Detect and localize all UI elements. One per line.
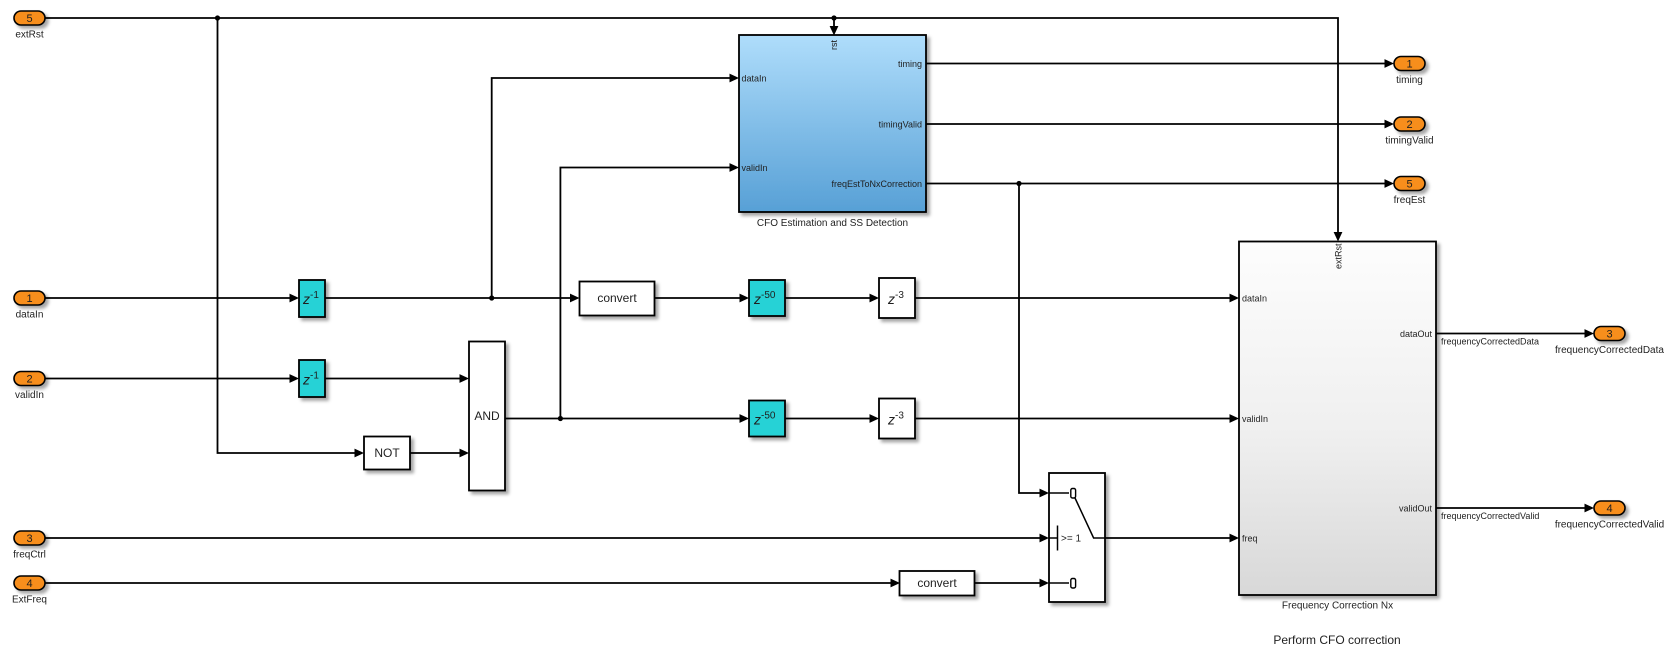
svg-text:4: 4 [1606,503,1612,515]
arrow into port4 [1585,504,1595,513]
svg-text:dataIn: dataIn [742,74,767,84]
arrow into port3 [1585,329,1595,338]
arrow into switch bottom [1040,579,1050,588]
wire ExtFreq to convert2 [45,582,891,584]
svg-text:freqCtrl: freqCtrl [13,550,46,561]
delay z-3 lower [879,399,915,439]
switch threshold stub [1049,537,1058,539]
wire branch up to CFO dataIn [492,78,730,298]
convert block 1 [580,282,655,316]
svg-text:ExtFreq: ExtFreq [12,595,47,606]
node extRst-NOT branch [215,15,220,20]
wire CFO freqEst to port5 out [926,183,1385,185]
svg-text:frequencyCorrectedData: frequencyCorrectedData [1555,345,1664,356]
svg-text:5: 5 [26,13,32,25]
svg-text:convert: convert [597,291,637,305]
svg-text:timingValid: timingValid [1385,136,1433,147]
svg-text:Perform CFO correction: Perform CFO correction [1273,633,1400,647]
switch bottom contact [1071,579,1076,589]
svg-text:2: 2 [1406,119,1412,131]
arrow into out port timing [1385,59,1395,68]
delay z-50 lower [749,401,785,437]
wire convert2 to switch [975,582,1040,584]
arrow into convert1 [570,294,580,303]
switch bottom input stub [1049,582,1069,584]
svg-text:validIn: validIn [15,390,44,401]
svg-text:extRst: extRst [1334,243,1344,269]
outport 3 frequencyCorrectedData [1441,327,1664,357]
arrow into z-50 lower [740,414,750,423]
arrowheads [290,26,1595,587]
svg-text:validIn: validIn [1242,414,1268,424]
svg-text:NOT: NOT [374,446,400,460]
arrow into NOT [355,449,365,458]
arrow into CFO validIn [730,163,740,172]
arrow into out port timingValid [1385,120,1395,129]
convert block 2 [900,571,975,596]
arrow into switch top [1040,489,1050,498]
arrow into out port freqEst [1385,179,1395,188]
outport 4 frequencyCorrectedValid [1441,501,1664,531]
node freqEst branch [1016,181,1021,186]
svg-text:3: 3 [1606,329,1612,341]
svg-text:>= 1: >= 1 [1061,534,1081,545]
arrow into AND top [460,374,470,383]
svg-text:timing: timing [1396,75,1423,86]
svg-text:rst: rst [829,40,839,50]
svg-text:Frequency Correction Nx: Frequency Correction Nx [1282,601,1393,612]
svg-text:convert: convert [917,576,957,590]
svg-text:timingValid: timingValid [879,120,922,130]
switch arm diagonal [1075,498,1105,538]
delay z-50 upper [749,280,785,316]
svg-text:2: 2 [26,374,32,386]
wire extRst drop to CFO rst [833,18,835,26]
arrow down into FCNx extRst [1334,232,1343,242]
arrow into z-3 upper [870,294,880,303]
subsystem Frequency Correction Nx [1239,242,1436,612]
svg-text:1: 1 [26,293,32,305]
svg-text:frequencyCorrectedValid: frequencyCorrectedValid [1555,520,1664,531]
arrow into z-1 (dataIn) [290,294,300,303]
wire z-3 to FCNx dataIn [915,297,1230,299]
wire CFO timing to port1 out [926,63,1385,65]
svg-text:CFO Estimation and SS Detectio: CFO Estimation and SS Detection [757,218,908,229]
svg-text:frequencyCorrectedValid: frequencyCorrectedValid [1441,511,1539,521]
wire NOT to AND [410,452,460,454]
outport 2 timingValid [1385,117,1433,147]
svg-text:1: 1 [1406,59,1412,71]
wire AND out to z-50 [505,418,740,420]
wire extRst branch down to NOT [218,18,356,453]
arrow into z-50 upper [740,294,750,303]
svg-text:timing: timing [898,59,922,69]
switch top input stub [1049,492,1069,494]
svg-text:validIn: validIn [742,163,768,173]
inport 3 freqCtrl [13,531,46,561]
node extRst-rst branch [831,15,836,20]
svg-text:AND: AND [474,409,500,423]
arrow into convert2 [891,579,901,588]
svg-text:freq: freq [1242,534,1258,544]
arrow into z-3 lower [870,414,880,423]
svg-text:freqEstToNxCorrection: freqEstToNxCorrection [831,179,922,189]
svg-text:dataIn: dataIn [16,310,44,321]
wire FCNx validOut to port4 [1436,507,1585,509]
wire z-3 to FCNx validIn [915,418,1230,420]
wire z-50 to z-3 [785,297,870,299]
svg-text:freqEst: freqEst [1394,195,1426,206]
wire CFO timingValid to port2 out [926,123,1385,125]
wire FCNx dataOut to port3 [1436,333,1585,335]
node AND-out branch [558,416,563,421]
arrow into switch middle [1040,534,1050,543]
delay z-1 upper [299,280,325,317]
wire z-1 to AND [325,378,460,380]
arrow into FCNx freq [1230,534,1240,543]
switch block [1049,473,1105,602]
arrow into CFO dataIn [730,74,740,83]
node dataIn branch [489,295,494,300]
wire freqCtrl to switch [45,537,1040,539]
wire z-1 to convert [325,297,570,299]
svg-text:dataIn: dataIn [1242,294,1267,304]
delay z-1 lower [299,360,325,397]
arrow into FCNx validIn [1230,414,1240,423]
AND block [469,342,505,491]
arrow into AND bottom [460,449,470,458]
switch top contact [1071,489,1076,499]
svg-text:dataOut: dataOut [1400,329,1433,339]
inport 4 ExtFreq [12,576,47,606]
inport 5 extRst [14,11,45,41]
inport 1 dataIn [14,291,45,321]
svg-text:3: 3 [26,533,32,545]
NOT block [364,437,410,470]
outport 5 freqEst [1394,177,1426,207]
arrow into FCNx dataIn [1230,294,1240,303]
inport 2 validIn [14,372,45,402]
arrow into z-1 (validIn) [290,374,300,383]
svg-text:extRst: extRst [15,30,44,41]
svg-text:frequencyCorrectedData: frequencyCorrectedData [1441,337,1539,347]
wire validIn: port2 to z-1 [45,378,290,380]
wire extRst main: port5 to FCNx top [45,18,1338,232]
delay z-3 upper [879,278,915,318]
svg-text:4: 4 [26,578,32,590]
svg-text:validOut: validOut [1399,504,1433,514]
switch threshold line [1057,526,1059,551]
subsystem CFO Estimation and SS Detection [739,35,926,229]
wire switch to FCNx freq [1105,537,1230,539]
wire convert to z-50 [654,297,740,299]
wire dataIn: port1 to z-1 [45,297,290,299]
wire z-50 to z-3 lower [785,418,870,420]
wire freqEst branch down to switch [1019,184,1040,494]
arrow down into CFO rst [830,26,839,36]
svg-text:5: 5 [1406,179,1412,191]
outport 1 timing [1394,57,1425,87]
wire branch up to CFO validIn [560,168,730,419]
